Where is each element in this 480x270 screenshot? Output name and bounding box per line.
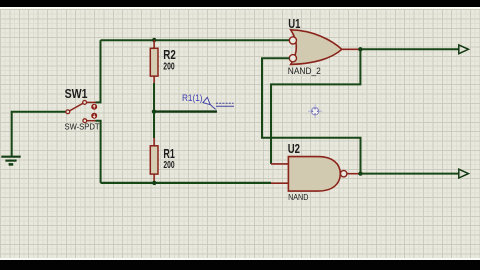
junction node Q (U1 output) bbox=[358, 47, 362, 51]
wire U1 input B to node QB (left, down, right, down) bbox=[262, 58, 361, 173]
output terminal arrow Q bbox=[459, 45, 469, 54]
wire SW1 upper throw to top rail corner bbox=[96, 40, 101, 102]
svg-text:NAND_2: NAND_2 bbox=[288, 66, 321, 76]
svg-text:200: 200 bbox=[163, 61, 174, 72]
SW1 toggle button up bbox=[91, 104, 97, 110]
wire middle node to probe tip bbox=[154, 110, 217, 112]
U1 output pin bbox=[342, 48, 361, 50]
junction node QB (U2 output) bbox=[358, 171, 362, 175]
svg-text:SW1: SW1 bbox=[65, 86, 88, 101]
switch SW1 bbox=[66, 101, 96, 123]
junction R1 bottom bbox=[152, 181, 156, 185]
origin marker bbox=[308, 104, 322, 118]
svg-text:R1(1): R1(1) bbox=[182, 93, 203, 103]
svg-text:SW-SPDT: SW-SPDT bbox=[65, 122, 100, 131]
gate U1 NAND_2 (DeMorgan OR shape) bbox=[289, 30, 342, 65]
wire QB to output terminal bbox=[361, 173, 459, 175]
resistor R2 bbox=[150, 40, 158, 83]
ground bbox=[1, 157, 20, 165]
resistor R1 bbox=[150, 138, 158, 183]
svg-text:R2: R2 bbox=[163, 47, 176, 62]
wire ground to SW1 pole bbox=[12, 112, 66, 157]
wire Q to output terminal bbox=[360, 48, 458, 50]
wire SW1 lower throw down to bottom rail bbox=[96, 121, 101, 183]
junction R2 top bbox=[152, 38, 156, 42]
wire R2 bottom to middle node bbox=[153, 83, 155, 112]
svg-text:200: 200 bbox=[163, 160, 174, 171]
svg-text:U1: U1 bbox=[288, 16, 300, 31]
U2 input pin 1 bbox=[271, 163, 288, 165]
wire bottom rail (node to R1 bottom and U2 input B) bbox=[101, 182, 271, 184]
probe R1(1) bbox=[203, 97, 234, 109]
wire top rail (node to R2 top and U1 input A) bbox=[101, 39, 290, 41]
junction middle node bbox=[152, 109, 156, 113]
wire middle node to R1 top bbox=[153, 112, 155, 138]
svg-text:NAND: NAND bbox=[288, 193, 308, 202]
svg-text:U2: U2 bbox=[288, 141, 300, 156]
output terminal arrow QB bbox=[459, 169, 469, 178]
U2 output pin bbox=[347, 173, 361, 175]
gate U2 NAND bbox=[288, 157, 347, 192]
U2 input pin 2 bbox=[271, 182, 288, 184]
svg-text:R1: R1 bbox=[163, 146, 174, 161]
SW1 toggle button down bbox=[91, 113, 97, 119]
wire feedback Q to U2 input (down, left, down) bbox=[271, 49, 360, 164]
